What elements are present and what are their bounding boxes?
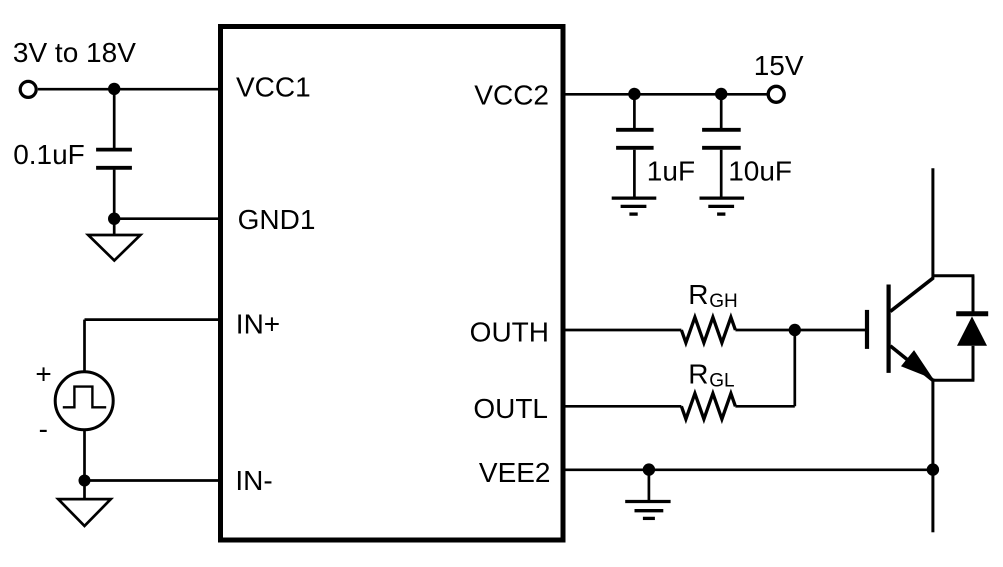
svg-text:15V: 15V [754,50,804,81]
wire IN- [85,479,221,482]
ground VEE2 [625,470,670,519]
junction dot C3 [715,88,727,100]
IC body U1 [221,27,564,541]
label 0.1uF [13,139,85,170]
svg-text:GND1: GND1 [238,204,316,235]
capacitor C3 10uF [702,130,741,148]
svg-text:IN+: IN+ [236,309,280,340]
label 15V [754,50,804,81]
capacitor C1 0.1uF [96,150,132,168]
svg-text:-: - [39,414,48,445]
svg-text:GH: GH [709,291,738,312]
IGBT Q1 emitter lead [890,346,933,380]
svg-text:3V to 18V: 3V to 18V [13,37,136,68]
resistor RGH [681,317,735,343]
wire OUTH [563,329,681,332]
junction dot VCC1 [108,83,120,95]
wire gate [795,329,865,332]
pin label GND1 [238,204,316,235]
label RGH [688,279,738,312]
input supply terminal [20,81,36,97]
wire VCC1 [38,88,221,91]
wire collector vertical [931,168,934,279]
wire C3 top [720,94,723,128]
wire diode bottom [933,379,975,382]
junction dot IN- [79,475,91,487]
svg-text:+: + [35,359,51,390]
label 1uF [647,155,695,186]
svg-text:VCC1: VCC1 [236,71,311,102]
wire GND1 [114,217,220,220]
wire C3 bottom [720,150,723,198]
wire emitter stub [931,470,934,533]
pin label VCC2 [474,80,549,111]
IGBT Q1 collector lead [890,278,933,311]
junction dot GND1 [108,213,120,225]
wire VEE2 [563,468,933,471]
pin label OUTL [473,393,548,424]
pin label IN- [235,465,272,496]
svg-text:OUTL: OUTL [473,393,548,424]
junction dot emitter [927,463,939,475]
wire VCC2 [563,93,767,96]
wire IN+ [85,318,221,321]
capacitor C2 1uF [616,130,654,148]
IGBT Q1 gate bar [865,310,869,349]
wire OUTL [563,405,681,408]
label 10uF [728,155,792,186]
svg-text:VEE2: VEE2 [479,457,551,488]
resistor RGL [681,394,735,420]
svg-text:IN-: IN- [235,465,272,496]
junction dot VEE2 ground [643,463,655,475]
pin label IN+ [236,309,280,340]
svg-text:VCC2: VCC2 [474,80,549,111]
svg-text:0.1uF: 0.1uF [13,139,85,170]
svg-text:R: R [688,358,708,389]
wire top to diode [933,274,975,277]
label 3V to 18V [13,37,136,68]
wire RGL to node [735,405,794,408]
output supply terminal 15V [768,86,784,102]
wire RGH to node [735,329,794,332]
ground GND1 [88,219,140,261]
svg-text:1uF: 1uF [647,155,695,186]
pin label VEE2 [479,457,551,488]
wire C2 top [633,94,636,128]
wire IN+ vertical [83,320,86,372]
label plus [35,359,51,390]
svg-text:R: R [688,279,708,310]
wire node vertical [793,330,796,406]
wire emitter vertical [931,379,934,470]
pulse source V1 [55,372,113,430]
label RGL [688,358,734,391]
svg-text:10uF: 10uF [728,155,792,186]
wire C1 bottom [113,170,116,219]
wire C2 bottom [633,150,636,198]
junction dot gate node [789,324,801,336]
svg-text:OUTH: OUTH [470,316,549,347]
pin label VCC1 [236,71,311,102]
ground input [58,481,111,527]
wire to C1 top [113,89,116,148]
junction dot C2 [628,88,640,100]
label minus [39,414,48,445]
ground C3 [700,198,745,214]
svg-text:GL: GL [709,371,734,392]
pin label OUTH [470,316,549,347]
IGBT Q1 body bar [886,285,890,373]
diode D1 [956,276,988,381]
wire V1 to IN- [83,430,86,481]
ground C2 [612,198,657,214]
